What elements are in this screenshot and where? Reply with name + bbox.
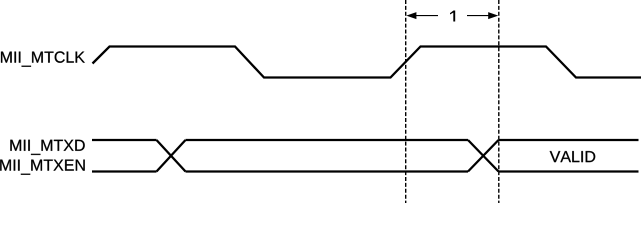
bus top rail segment 2 bbox=[186, 139, 469, 141]
bus top rail segment 3 (valid data) bbox=[499, 139, 639, 141]
bus bottom rail segment 1 bbox=[92, 170, 157, 172]
timing parameter label 1 bbox=[450, 11, 455, 22]
bus bottom rail segment 2 bbox=[186, 170, 469, 172]
bus crossover 1 rising diagonal bbox=[157, 140, 186, 172]
bus crossover 2 rising diagonal bbox=[468, 140, 499, 172]
dimension arrow right (points right to t1 end) bbox=[467, 12, 498, 19]
dimension arrow left (points left to t1 start) bbox=[406, 12, 438, 19]
dashed reference line at clock rising edge (t1 start) bbox=[405, 0, 407, 203]
bus crossover 1 falling diagonal bbox=[157, 140, 186, 172]
clock waveform MII_MTCLK bbox=[93, 47, 641, 78]
signal label MII_MTCLK bbox=[1, 51, 85, 66]
dashed reference line at end of data transition (t1 end) bbox=[498, 0, 500, 203]
signal label MII_MTXEN bbox=[0, 160, 85, 175]
signal label MII_MTXD bbox=[10, 140, 84, 155]
data state label VALID bbox=[550, 151, 596, 162]
bus crossover 2 falling diagonal bbox=[468, 140, 499, 172]
bus top rail segment 1 bbox=[92, 139, 157, 141]
bus bottom rail segment 3 (valid data) bbox=[499, 170, 639, 172]
